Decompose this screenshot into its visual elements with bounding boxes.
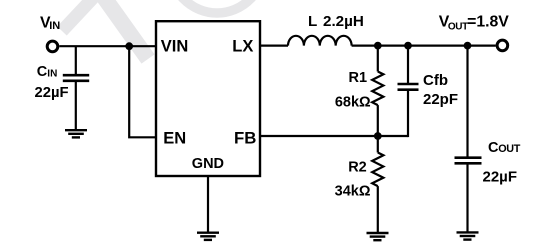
node VOUT: output terminal: [497, 40, 508, 51]
svg-text:22pF: 22pF: [423, 91, 458, 108]
ground (R2): [367, 233, 389, 240]
wire: GND pin down: [207, 176, 209, 233]
capacitor Cfb: [398, 84, 419, 90]
wire: FB node: [260, 135, 408, 137]
svg-text:68kΩ: 68kΩ: [335, 95, 371, 111]
svg-text:EN: EN: [163, 130, 186, 148]
svg-text:IN: IN: [49, 20, 60, 32]
wire: CIN branch down: [75, 46, 77, 75]
wire: CIN to ground: [75, 81, 77, 130]
node VIN: input terminal: [47, 41, 58, 52]
junction dot (VIN/EN): [125, 42, 133, 50]
wire: Cfb top lead: [407, 46, 409, 84]
wire: R2 to ground: [377, 186, 379, 233]
wire: COUT to ground: [466, 163, 468, 232]
svg-text:22µF: 22µF: [35, 85, 69, 101]
watermark (decorative): [62, 0, 265, 59]
svg-text:FB: FB: [234, 129, 256, 148]
capacitor COUT: [455, 158, 482, 164]
ground (CIN): [65, 130, 87, 137]
svg-text:R1: R1: [349, 70, 368, 86]
svg-text:GND: GND: [192, 156, 224, 172]
wire: R1 top lead: [377, 46, 379, 72]
inductor L: [288, 36, 352, 46]
junction dot (Cfb top): [404, 42, 412, 50]
svg-text:34kΩ: 34kΩ: [335, 184, 371, 200]
wire: EN branch: [129, 46, 156, 137]
capacitor CIN: [63, 75, 89, 81]
svg-text:=1.8V: =1.8V: [467, 14, 509, 31]
op-amp U1: IC body: [156, 21, 260, 176]
svg-text:OUT: OUT: [448, 21, 468, 32]
svg-text:C: C: [37, 64, 48, 80]
wire: input rail to IC VIN pin: [59, 45, 156, 47]
svg-text:2.2µH: 2.2µH: [323, 13, 364, 30]
ground (COUT): [457, 232, 479, 239]
svg-text:Cfb: Cfb: [423, 72, 448, 89]
label COUT: [488, 140, 521, 156]
wire: Cfb bottom lead: [407, 90, 409, 137]
wire: COUT branch down: [466, 46, 468, 158]
wire: LX stub: [260, 44, 288, 46]
junction dot (COUT top): [464, 42, 472, 50]
svg-text:IN: IN: [47, 68, 57, 79]
svg-text:OUT: OUT: [498, 143, 521, 155]
junction dot (FB node): [374, 132, 382, 140]
label V_OUT=1.8V: [439, 14, 509, 33]
svg-text:LX: LX: [232, 37, 253, 55]
wire: output rail: [352, 44, 496, 46]
label V_IN: [40, 14, 60, 32]
ground (IC GND): [197, 233, 219, 240]
resistor R1: [372, 72, 383, 106]
wire: R2 top lead: [377, 136, 379, 153]
svg-text:L: L: [308, 13, 317, 30]
svg-text:R2: R2: [348, 160, 367, 176]
wire: R1 bottom lead: [377, 105, 379, 136]
resistor R2: [372, 153, 383, 187]
svg-text:22µF: 22µF: [483, 168, 518, 185]
label CIN: [37, 64, 58, 80]
junction dot (R1 top): [374, 42, 382, 50]
svg-text:VIN: VIN: [161, 37, 189, 55]
